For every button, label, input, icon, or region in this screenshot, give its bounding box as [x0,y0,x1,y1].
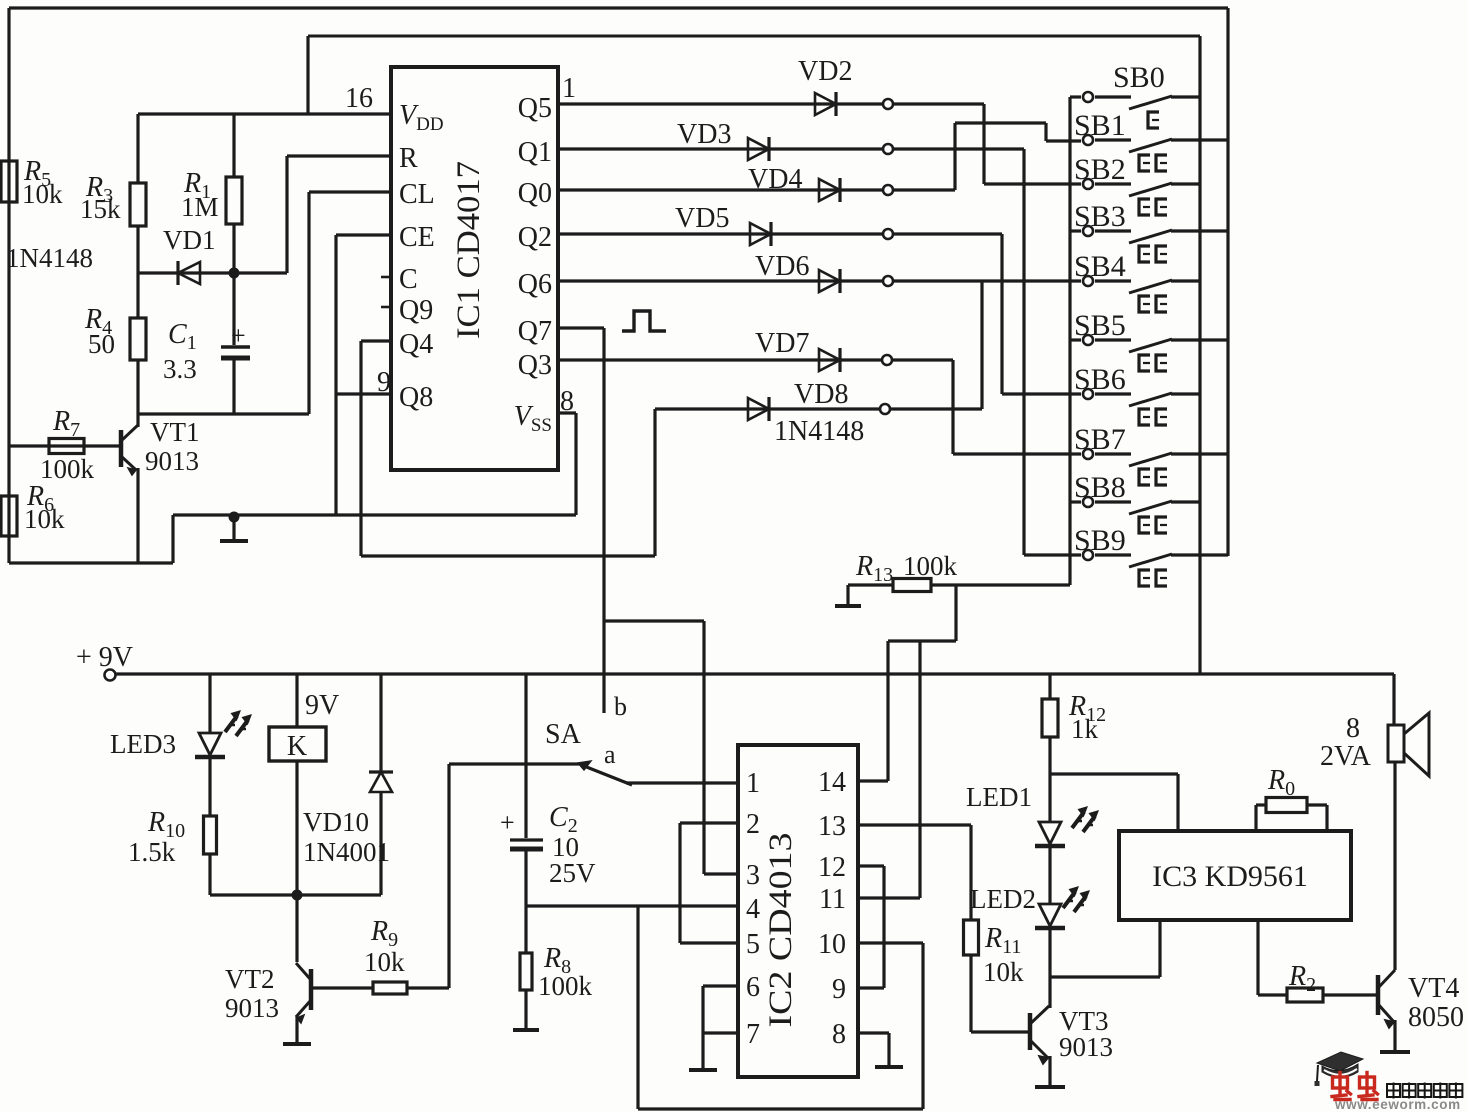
svg-text:100k: 100k [40,454,95,484]
svg-text:8: 8 [832,1019,846,1050]
svg-text:9013: 9013 [225,993,279,1023]
svg-text:CE: CE [399,222,435,253]
svg-text:7: 7 [746,1019,760,1050]
svg-text:LED1: LED1 [966,782,1032,812]
svg-text:VT4: VT4 [1408,973,1459,1004]
svg-text:Q4: Q4 [399,329,433,360]
svg-text:1N4148: 1N4148 [6,243,93,273]
svg-text:1N4001: 1N4001 [303,837,390,867]
svg-text:b: b [614,692,627,721]
svg-text:13: 13 [818,811,846,842]
svg-text:SB1: SB1 [1074,109,1126,142]
svg-text:SB4: SB4 [1074,250,1126,283]
svg-text:Q0: Q0 [518,178,552,209]
svg-text:3: 3 [746,860,760,891]
svg-text:C: C [399,264,418,295]
svg-text:VD4: VD4 [748,164,802,195]
svg-text:9013: 9013 [145,446,199,476]
svg-text:+: + [231,321,246,350]
svg-text:Q1: Q1 [518,137,552,168]
svg-text:Q2: Q2 [518,222,552,253]
svg-text:LED2: LED2 [970,884,1036,914]
svg-text:10k: 10k [24,504,65,534]
svg-text:Q9: Q9 [399,295,433,326]
svg-text:VD10: VD10 [303,807,369,837]
svg-text:VD7: VD7 [755,328,809,359]
svg-text:SB2: SB2 [1074,153,1126,186]
svg-text:8: 8 [1346,713,1360,744]
svg-text:4: 4 [746,894,760,925]
svg-text:Q3: Q3 [518,350,552,381]
svg-text:LED3: LED3 [110,729,176,759]
svg-text:1k: 1k [1071,714,1099,744]
svg-text:SB6: SB6 [1074,363,1126,396]
svg-text:www.eeworm.com: www.eeworm.com [1334,1097,1461,1112]
svg-text:SB3: SB3 [1074,200,1126,233]
svg-text:SB0: SB0 [1113,61,1165,94]
svg-text:Q7: Q7 [518,316,552,347]
svg-text:IC2 CD4013: IC2 CD4013 [763,833,799,1028]
svg-text:9V: 9V [305,690,339,721]
svg-text:VD5: VD5 [675,203,729,234]
svg-text:14: 14 [818,767,846,798]
svg-text:VD3: VD3 [677,119,731,150]
svg-text:VD6: VD6 [755,251,809,282]
svg-text:SB7: SB7 [1074,423,1126,456]
svg-text:IC3 KD9561: IC3 KD9561 [1152,860,1308,893]
svg-text:10: 10 [818,929,846,960]
svg-text:IC1 CD4017: IC1 CD4017 [451,161,487,339]
svg-text:Q5: Q5 [518,93,552,124]
svg-text:10k: 10k [983,957,1024,987]
svg-text:9013: 9013 [1059,1032,1113,1062]
svg-text:8050: 8050 [1408,1002,1464,1033]
svg-text:2VA: 2VA [1320,741,1372,772]
svg-text:25V: 25V [549,858,596,888]
svg-text:1: 1 [746,768,760,799]
svg-text:CL: CL [399,179,435,210]
svg-text:+: + [500,808,515,837]
svg-text:3.3: 3.3 [163,354,197,384]
svg-text:1N4148: 1N4148 [774,416,864,447]
svg-text:SB9: SB9 [1074,524,1126,557]
svg-text:SB5: SB5 [1074,309,1126,342]
svg-text:VT2: VT2 [225,964,275,994]
svg-text:50: 50 [88,329,115,359]
svg-text:9: 9 [832,974,846,1005]
svg-text:+ 9V: + 9V [76,642,133,673]
svg-text:VT1: VT1 [150,417,200,447]
svg-text:SA: SA [545,719,582,750]
svg-text:6: 6 [746,972,760,1003]
svg-text:12: 12 [818,852,846,883]
svg-text:SB8: SB8 [1074,471,1126,504]
svg-text:100k: 100k [903,551,958,581]
svg-text:2: 2 [746,809,760,840]
svg-text:100k: 100k [538,971,593,1001]
svg-text:Q8: Q8 [399,382,433,413]
svg-text:Q6: Q6 [518,269,552,300]
svg-text:K: K [287,731,307,762]
svg-text:5: 5 [746,929,760,960]
svg-text:1: 1 [562,73,576,104]
svg-text:VD2: VD2 [798,56,852,87]
svg-text:VD1: VD1 [163,225,216,255]
svg-text:11: 11 [819,884,846,915]
svg-text:VD8: VD8 [794,379,848,410]
svg-text:15k: 15k [80,194,121,224]
svg-text:9: 9 [377,367,391,398]
svg-text:10k: 10k [364,947,405,977]
svg-text:10k: 10k [22,179,63,209]
svg-text:a: a [604,740,616,769]
svg-text:1.5k: 1.5k [128,837,176,867]
svg-text:R: R [399,143,418,174]
svg-text:1M: 1M [181,192,219,222]
svg-text:16: 16 [345,83,373,114]
